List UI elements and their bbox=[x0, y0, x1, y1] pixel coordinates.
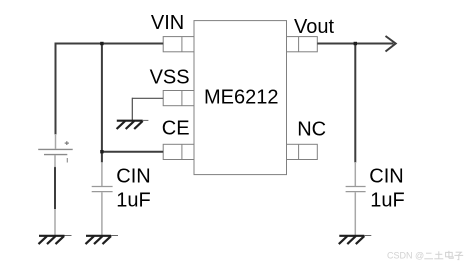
svg-text:Vout: Vout bbox=[294, 16, 334, 38]
svg-text:CIN: CIN bbox=[369, 166, 403, 188]
junction dot CE / CIN branch bbox=[100, 150, 103, 153]
wire battery bottom bbox=[54, 167, 56, 209]
ground battery bbox=[39, 209, 72, 244]
ground CIN right bbox=[339, 236, 372, 245]
svg-text:VIN: VIN bbox=[151, 12, 184, 34]
capacitor CIN right (output cap) bbox=[346, 162, 366, 236]
wire battery top drop bbox=[55, 43, 57, 135]
wire Vout to arrow bbox=[317, 43, 393, 45]
battery B1 bbox=[38, 134, 72, 167]
wire COUT branch drop bbox=[354, 44, 356, 163]
svg-text:1uF: 1uF bbox=[116, 189, 150, 211]
svg-text:ME6212: ME6212 bbox=[204, 86, 279, 108]
capacitor CIN left bbox=[92, 162, 113, 236]
pin NC pad bbox=[287, 144, 318, 159]
wire VSS stub bbox=[132, 98, 163, 121]
svg-text:CE: CE bbox=[162, 118, 190, 140]
ground VSS bbox=[117, 120, 149, 129]
pin CE pad bbox=[163, 144, 194, 159]
svg-text:VSS: VSS bbox=[150, 67, 190, 89]
wire VIN rail top bbox=[56, 43, 164, 45]
pin VIN pad bbox=[163, 37, 194, 52]
junction dot Vout rail / COUT branch bbox=[354, 42, 357, 45]
wire CIN branch drop bbox=[101, 43, 103, 163]
svg-text:CIN: CIN bbox=[116, 166, 150, 188]
pin VSS pad bbox=[163, 91, 194, 106]
junction dot VIN rail / CIN branch bbox=[100, 42, 103, 45]
wire CE to junction bbox=[101, 151, 163, 153]
pin Vout pad bbox=[287, 37, 318, 52]
svg-text:NC: NC bbox=[297, 118, 326, 140]
svg-text:CSDN @: CSDN @ bbox=[387, 251, 424, 261]
op-amp U1 ME6212 body bbox=[194, 21, 287, 175]
watermark CSDN bbox=[387, 251, 463, 261]
svg-text:1uF: 1uF bbox=[370, 189, 404, 211]
ground CIN left bbox=[86, 236, 119, 245]
arrow output bbox=[386, 36, 396, 52]
